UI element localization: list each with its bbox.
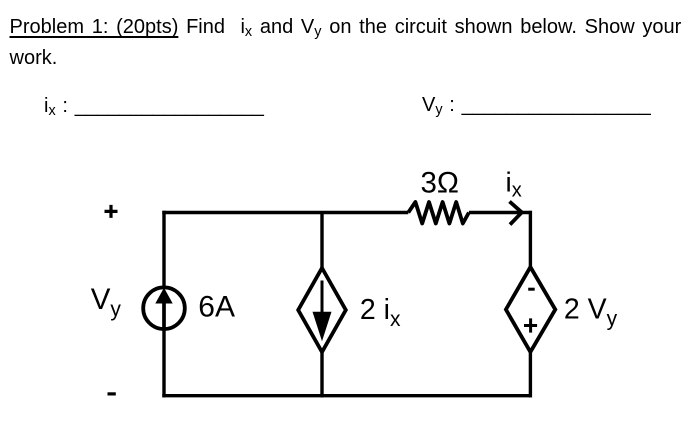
wire bottom horizontal bbox=[162, 394, 532, 397]
wire right vertical lower segment bbox=[529, 351, 532, 397]
dependent voltage source 2Vy diamond bbox=[506, 267, 555, 352]
resistor R 3ohm zigzag bbox=[408, 202, 469, 224]
dependent current source 2ix arrow shaft bbox=[321, 281, 324, 316]
label minus inside 2Vy diamond bbox=[528, 288, 535, 291]
svg-text:3Ω: 3Ω bbox=[421, 167, 459, 200]
label minus polarity bottom left bbox=[108, 392, 116, 395]
label plus polarity top left bbox=[105, 205, 118, 218]
wire top horizontal left segment bbox=[162, 211, 408, 214]
svg-text:ix: ix bbox=[506, 167, 522, 202]
current source I1 arrowhead bbox=[155, 288, 172, 304]
problem statement line 1 bbox=[10, 14, 682, 43]
label plus inside 2Vy diamond bbox=[524, 318, 537, 332]
problem statement line 2 bbox=[10, 45, 58, 72]
svg-text:2 Vy: 2 Vy bbox=[564, 294, 618, 331]
dependent current source 2ix diamond bbox=[298, 268, 346, 352]
current source I1 6A circle bbox=[143, 287, 185, 329]
svg-text:6A: 6A bbox=[198, 290, 235, 323]
wire left vertical upper segment bbox=[162, 211, 165, 287]
wire right vertical upper segment bbox=[529, 211, 532, 267]
svg-text:2 ix: 2 ix bbox=[360, 294, 401, 331]
wire middle vertical upper segment bbox=[320, 213, 323, 270]
wire top horizontal right segment bbox=[469, 211, 532, 214]
current source I1 arrow shaft bbox=[162, 300, 166, 330]
dependent current source 2ix arrowhead bbox=[313, 312, 332, 342]
wire left vertical lower segment bbox=[162, 329, 165, 397]
current arrow ix on top wire bbox=[510, 202, 522, 225]
answer blank Vy bbox=[422, 92, 651, 121]
answer blank ix bbox=[44, 93, 264, 122]
svg-text:Vy: Vy bbox=[91, 283, 122, 321]
wire middle vertical lower segment bbox=[320, 351, 323, 397]
